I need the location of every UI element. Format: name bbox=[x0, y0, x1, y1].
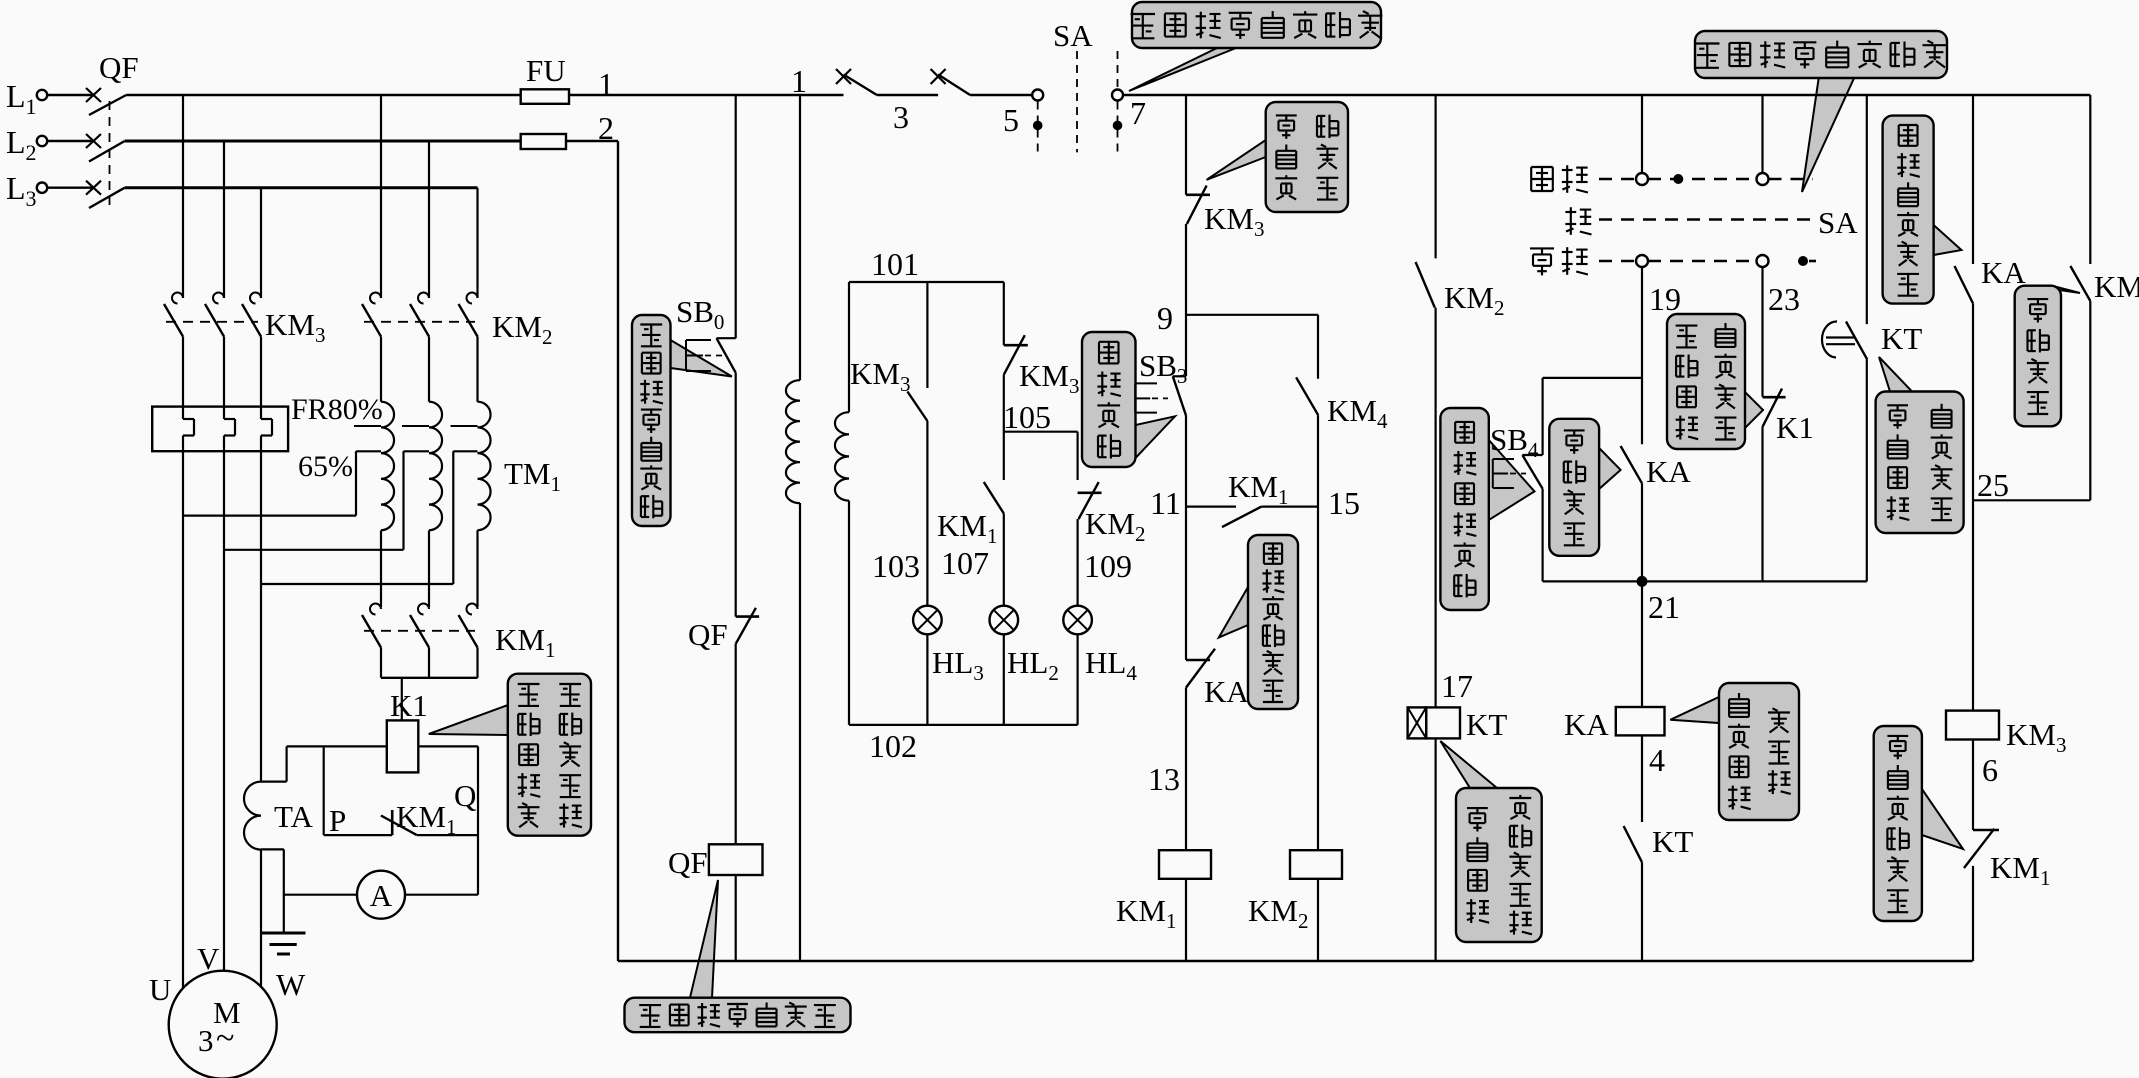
wire KM1 NC to bus bbox=[1972, 866, 1974, 961]
selector SA stop row bbox=[1599, 218, 1813, 221]
wire KM2 pole3 to TM1 bbox=[476, 337, 478, 402]
contact KA NO (self hold) bbox=[1621, 446, 1642, 483]
contactor KM3 pole1 bbox=[172, 293, 183, 304]
selector label stop bbox=[1565, 211, 1576, 213]
pushbutton SB3 bbox=[1173, 375, 1186, 377]
wire KM1 pole2 down bbox=[428, 648, 430, 678]
contactor KM1 pole2 bbox=[418, 604, 429, 615]
svg-text:TA: TA bbox=[274, 799, 313, 834]
node 21 bbox=[1637, 576, 1648, 587]
svg-text:~: ~ bbox=[216, 1020, 234, 1057]
wire 65% tap link pole2 bbox=[404, 450, 430, 452]
wire col19 stub top bbox=[1641, 95, 1643, 173]
svg-text:FU: FU bbox=[526, 53, 566, 88]
breaker QF pole 1 bbox=[47, 94, 93, 96]
wire SB0 to QF aux bbox=[735, 373, 737, 617]
wire K1 right bbox=[418, 745, 478, 747]
relay K1 coil bbox=[387, 720, 419, 772]
callout changeover interlock contact bbox=[1219, 587, 1248, 638]
wire col19 to node 21 bbox=[1641, 483, 1643, 707]
motor M bbox=[169, 971, 277, 1078]
svg-text:KM: KM bbox=[2094, 269, 2139, 304]
wire KT delay to node 21 line bbox=[1866, 359, 1868, 581]
callout work mode selector 1 bbox=[1129, 48, 1236, 91]
wire KT coil to bus bbox=[1434, 738, 1436, 961]
wire KT column mid bbox=[1434, 308, 1436, 708]
svg-text:KT: KT bbox=[1652, 824, 1693, 859]
wire KM3 coil down bbox=[1972, 740, 1974, 831]
callout manual changeover button bbox=[1489, 440, 1535, 520]
wire KM2 pole1 to TM1 bbox=[380, 337, 382, 402]
contact K1 NC bbox=[1763, 396, 1786, 399]
svg-text:P: P bbox=[329, 803, 346, 838]
svg-text:1: 1 bbox=[791, 63, 807, 99]
wire SB0 column top bbox=[735, 95, 737, 338]
svg-text:FR80%: FR80% bbox=[291, 393, 383, 426]
svg-text:KT: KT bbox=[1466, 707, 1507, 742]
wire drop KM3 pole3 bbox=[260, 188, 262, 298]
coil KM1 bbox=[1159, 850, 1211, 879]
svg-text:102: 102 bbox=[869, 728, 917, 764]
coil KM2 bbox=[1290, 850, 1342, 879]
wire 2 drop bbox=[617, 141, 619, 961]
wire node 9 branch bbox=[1186, 314, 1318, 316]
wire KM4 column down bbox=[1317, 415, 1319, 850]
wire KM2 pole2 to TM1 bbox=[428, 337, 430, 402]
wire KA column top bbox=[1972, 95, 1974, 264]
wire motor W upper bbox=[260, 584, 262, 782]
svg-text:21: 21 bbox=[1648, 589, 1680, 625]
wire KM3 pole1 to FR bbox=[182, 337, 184, 420]
selector label manual bbox=[1531, 166, 1553, 168]
lamp HL3 bbox=[913, 606, 942, 635]
wire TA top tap bbox=[261, 780, 287, 782]
svg-text:1: 1 bbox=[598, 66, 614, 102]
svg-text:KT: KT bbox=[1881, 321, 1922, 356]
current transformer TA bbox=[244, 782, 261, 850]
wire P drop bbox=[323, 746, 325, 835]
contact KM2 NC (HL4) bbox=[1078, 491, 1102, 494]
svg-text:QF: QF bbox=[99, 50, 139, 85]
svg-text:QF: QF bbox=[688, 617, 728, 652]
wire KM1 star bus bbox=[381, 677, 478, 679]
wire QF coil to bus bbox=[735, 875, 737, 961]
svg-text:23: 23 bbox=[1768, 281, 1800, 317]
bottom control bus bbox=[618, 960, 1973, 963]
contactor KM3 linkage bbox=[166, 321, 258, 323]
wire TA bottom tap bbox=[261, 848, 284, 850]
callout control changeover relay bbox=[1670, 697, 1719, 723]
lamp HL2 bbox=[990, 606, 1019, 635]
wire node 102 bottom edge bbox=[849, 724, 1078, 726]
wire 65% tap link pole3 bbox=[453, 450, 477, 452]
callout run interlock contact 2 bbox=[1922, 789, 1963, 849]
breaker QF pole 2 bbox=[47, 140, 93, 142]
wire col19 below auto bbox=[1641, 267, 1643, 444]
node 5 wire bbox=[970, 94, 1032, 96]
svg-text:25: 25 bbox=[1977, 467, 2009, 503]
svg-text:101: 101 bbox=[871, 246, 919, 282]
wire KT column top bbox=[1434, 95, 1436, 258]
wire HL2 column top bbox=[1003, 282, 1005, 345]
wire top bus right bbox=[1123, 94, 2090, 96]
callout breaker close coil bbox=[690, 880, 718, 998]
svg-text:105: 105 bbox=[1003, 399, 1051, 435]
contact KM1 NO (HL2) bbox=[984, 482, 1004, 514]
svg-text:4: 4 bbox=[1649, 742, 1665, 778]
svg-text:K1: K1 bbox=[390, 688, 428, 723]
wire col23 below auto bbox=[1761, 267, 1763, 397]
svg-text:K1: K1 bbox=[1776, 410, 1814, 445]
wire right edge column top bbox=[2089, 95, 2091, 264]
svg-text:103: 103 bbox=[872, 548, 920, 584]
wire HL2 mid bbox=[1003, 432, 1005, 480]
wire ammeter left bbox=[284, 894, 357, 896]
contactor KM2 pole3 bbox=[467, 293, 478, 304]
lamp HL4 bbox=[1063, 606, 1092, 635]
ammeter A bbox=[357, 871, 405, 919]
wire KM4 column top bbox=[1317, 315, 1319, 379]
contact KM NO (self lock) bbox=[2070, 266, 2090, 301]
wire drop KM3 pole1 bbox=[182, 95, 184, 298]
wire KM1 pole3 down bbox=[476, 648, 478, 678]
contact KM1 NO (node 11) bbox=[1222, 507, 1261, 527]
svg-text:11: 11 bbox=[1150, 485, 1181, 521]
wire main column to node 9 bbox=[1185, 224, 1187, 376]
contactor KM3 pole3 bbox=[250, 293, 261, 304]
svg-text:107: 107 bbox=[941, 545, 989, 581]
svg-text:SA: SA bbox=[1053, 18, 1093, 53]
wire HL3 column bottom bbox=[926, 634, 928, 725]
svg-text:6: 6 bbox=[1982, 752, 1998, 788]
ground bbox=[262, 932, 306, 935]
breaker QF pole 3 bbox=[47, 186, 93, 188]
svg-text:3: 3 bbox=[893, 99, 909, 135]
svg-text:KA: KA bbox=[1981, 255, 2026, 290]
wire KM2 coil to bus bbox=[1317, 879, 1319, 961]
coil KA bbox=[1616, 707, 1665, 735]
thermal relay FR bbox=[152, 407, 288, 452]
contact KM3 NC (HL2) bbox=[1004, 344, 1028, 347]
svg-text:U: U bbox=[149, 972, 171, 1007]
wire star bus to K1 bbox=[401, 678, 403, 721]
selector label auto bbox=[1530, 247, 1554, 249]
wire KM1 pole1 down bbox=[380, 648, 382, 678]
wire KA col to node 25 bbox=[1972, 303, 1974, 500]
svg-text:19: 19 bbox=[1649, 281, 1681, 317]
callout breaker close button bbox=[671, 340, 732, 377]
wire drop KM2 pole1 bbox=[380, 95, 382, 298]
wire motor U bbox=[182, 516, 184, 988]
pushbutton SB4 bbox=[1541, 378, 1543, 455]
callout start button bbox=[1136, 416, 1176, 458]
wire motor W lower bbox=[260, 849, 262, 987]
wire col23 stub top bbox=[1761, 95, 1763, 173]
wire SB4 to node 21 bbox=[1541, 489, 1543, 582]
wire 1 after fuse bbox=[569, 94, 801, 96]
relay KT coil bbox=[1408, 707, 1427, 738]
contact KM4 NO bbox=[1296, 377, 1318, 415]
svg-text:A: A bbox=[370, 878, 393, 913]
contact KT delayed bbox=[1822, 321, 1837, 357]
svg-text:V: V bbox=[197, 941, 220, 976]
callout forced changeover time relay bbox=[1440, 741, 1497, 788]
coil QF bbox=[709, 844, 763, 875]
selector SA manual row bbox=[1599, 178, 1636, 181]
wire KM3 pole3 to FR bbox=[260, 337, 262, 420]
wire node 101 top edge bbox=[849, 281, 1004, 283]
wire QF aux to coil bbox=[735, 644, 737, 845]
wire drop KM3 pole2 bbox=[223, 141, 225, 298]
contact KM1 NC (meter) bbox=[324, 834, 393, 836]
wire HL2 bottom bbox=[1003, 634, 1005, 725]
wire 1 to switch bbox=[801, 94, 844, 96]
svg-text:9: 9 bbox=[1157, 300, 1173, 336]
contact KA NC (changeover interlock) bbox=[1186, 659, 1210, 662]
contactor KM1 pole1 bbox=[370, 604, 381, 615]
wire main column top bbox=[1185, 95, 1187, 195]
callout forced changeover control contact bbox=[1879, 357, 1912, 392]
wire HL2 lower bbox=[1003, 514, 1005, 606]
wire KT delay column top bbox=[1866, 95, 1868, 324]
contact KM3 NC (run interlock) bbox=[1186, 194, 1210, 197]
breaker QF linkage bbox=[109, 101, 111, 205]
wire Q drop bbox=[477, 746, 479, 894]
switch contact 3a bbox=[836, 69, 851, 84]
svg-text:17: 17 bbox=[1441, 668, 1473, 704]
wire right edge to node 25 bbox=[2089, 301, 2091, 500]
contact KT NO bbox=[1624, 826, 1642, 862]
svg-text:SA: SA bbox=[1818, 205, 1858, 240]
selector SA axis bbox=[1076, 51, 1078, 152]
wire control xfmr primary top bbox=[799, 95, 801, 380]
wire node 11 branch left bbox=[1186, 506, 1236, 508]
wire KA coil down bbox=[1641, 735, 1643, 822]
selector SA auto row bbox=[1599, 260, 1636, 263]
callout self lock contact 1 bbox=[1599, 448, 1621, 489]
wire main column 13 bbox=[1185, 688, 1187, 851]
node 3 wire bbox=[877, 94, 938, 96]
contact KM3 NO (HL3) bbox=[907, 392, 927, 422]
selector SA contact 5 bbox=[1032, 90, 1043, 101]
pushbutton SB0 bbox=[717, 337, 736, 339]
svg-text:W: W bbox=[276, 967, 306, 1002]
callout current changeover control contact bbox=[1745, 392, 1763, 428]
wire ammeter right bbox=[405, 894, 478, 896]
wire KM3 pole2 to FR bbox=[223, 337, 225, 420]
contact KM2 NO (KT branch) bbox=[1416, 262, 1435, 308]
wire 65% tap link pole1 bbox=[356, 450, 381, 452]
wire main column 11 bbox=[1185, 416, 1187, 661]
contact KM1 NC (run interlock 2) bbox=[1973, 829, 1999, 832]
callout self lock contact 2 bbox=[2030, 286, 2080, 293]
wire KT NO to bus bbox=[1641, 862, 1643, 961]
wire control xfmr primary bottom bbox=[799, 503, 801, 961]
svg-text:65%: 65% bbox=[298, 450, 353, 483]
fuse FU 1 bbox=[521, 89, 569, 104]
svg-text:15: 15 bbox=[1328, 485, 1360, 521]
contactor KM1 pole3 bbox=[467, 604, 478, 615]
wire HL4 upper bbox=[1076, 432, 1078, 480]
svg-text:2: 2 bbox=[598, 110, 614, 146]
contactor KM2 pole2 bbox=[418, 293, 429, 304]
wire HL4 lower bbox=[1076, 519, 1078, 606]
wire node 11 branch right bbox=[1261, 506, 1318, 508]
callout run interlock contact 1 bbox=[1207, 140, 1266, 180]
contactor KM1 linkage bbox=[364, 630, 475, 632]
contact QF aux NC bbox=[736, 615, 759, 618]
svg-text:109: 109 bbox=[1084, 548, 1132, 584]
svg-text:KA: KA bbox=[1564, 707, 1609, 742]
callout current changeover relay bbox=[429, 705, 508, 735]
wire KM1 coil to bus bbox=[1185, 879, 1187, 961]
svg-text:KA: KA bbox=[1204, 674, 1249, 709]
wire drop KM2 pole3 bbox=[476, 188, 478, 298]
callout changeover control contact bbox=[1934, 225, 1962, 255]
wire node 21 line bbox=[1543, 580, 1867, 582]
selector SA contact 7 bbox=[1112, 90, 1123, 101]
contactor KM3 pole2 bbox=[213, 293, 224, 304]
coil KM3 bbox=[1946, 711, 1999, 740]
wire HL3 column mid bbox=[926, 421, 928, 606]
control transformer primary bbox=[786, 380, 800, 503]
wire HL4 bottom bbox=[1076, 634, 1078, 725]
wire 2 after fuse bbox=[566, 140, 618, 143]
fuse FU 2 bbox=[521, 134, 566, 149]
terminal L3 bbox=[37, 183, 47, 193]
wire node 25 line bbox=[1973, 499, 2090, 501]
svg-text:KA: KA bbox=[1646, 454, 1691, 489]
wire node 105 bbox=[1004, 431, 1078, 433]
terminal L2 bbox=[37, 136, 47, 146]
wire L3 rail bbox=[125, 186, 478, 189]
svg-text:QF: QF bbox=[668, 845, 708, 880]
control transformer secondary bbox=[848, 282, 850, 412]
switch contact 3b bbox=[931, 69, 946, 84]
callout work mode selector 2 bbox=[1802, 76, 1855, 192]
wire L1 rail bbox=[126, 94, 521, 96]
transformer TM1 windings bbox=[381, 402, 394, 531]
contactor KM2 pole1 bbox=[370, 293, 381, 304]
svg-text:13: 13 bbox=[1148, 761, 1180, 797]
wire HL3 column top bbox=[926, 282, 928, 388]
terminal L1 bbox=[37, 90, 47, 100]
wire L2 rail bbox=[125, 140, 521, 143]
contact KA NO (changeover ctl) bbox=[1955, 266, 1974, 303]
wire HL2 to node 105 bbox=[1003, 375, 1005, 432]
wire col23 to node 21 line bbox=[1761, 426, 1763, 581]
wire motor V bbox=[223, 550, 225, 971]
contactor KM2 linkage bbox=[364, 321, 475, 323]
svg-text:5: 5 bbox=[1003, 102, 1019, 138]
wire KA col to KM3 coil bbox=[1972, 500, 1974, 710]
svg-text:7: 7 bbox=[1130, 95, 1146, 131]
svg-text:3: 3 bbox=[198, 1023, 214, 1058]
svg-text:Q: Q bbox=[454, 778, 476, 813]
wire SB4 branch top bbox=[1543, 377, 1642, 379]
wire drop KM2 pole2 bbox=[428, 141, 430, 298]
